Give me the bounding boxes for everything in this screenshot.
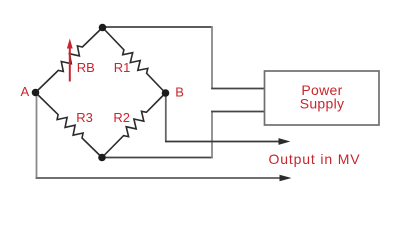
- top node: [99, 24, 107, 32]
- wire: vertical corner up to supply level: [211, 111, 213, 159]
- wire output: node B down: [165, 93, 167, 142]
- svg-text:R1: R1: [114, 60, 131, 75]
- output arrowhead: [279, 138, 291, 145]
- wire A rail: node A down: [36, 93, 38, 179]
- resistor R3: [36, 93, 103, 158]
- bottom arrowhead: [280, 175, 292, 182]
- variable arrow through RB: [67, 39, 73, 82]
- wire output: right to arrow: [165, 141, 280, 143]
- wire A rail: right to bottom arrow: [36, 177, 281, 179]
- wire: into power supply (upper): [211, 88, 264, 90]
- resistor R2: [102, 93, 166, 158]
- svg-text:B: B: [175, 85, 184, 100]
- resistor R1: [103, 28, 166, 94]
- wire top: top node to corner: [103, 26, 213, 28]
- bottom node: [98, 154, 106, 162]
- svg-text:RB: RB: [77, 60, 95, 75]
- wire: vertical corner down to supply level: [211, 26, 213, 88]
- wire: into power supply (lower): [211, 111, 264, 113]
- svg-text:A: A: [21, 84, 30, 99]
- node B: [162, 89, 170, 97]
- power supply box: [265, 71, 380, 125]
- wire bottom: bottom node to corner: [102, 157, 213, 159]
- svg-text:R3: R3: [76, 110, 93, 125]
- resistor RB: [36, 28, 103, 93]
- svg-text:R2: R2: [113, 110, 130, 125]
- svg-text:Output in MV: Output in MV: [269, 151, 361, 167]
- svg-text:Supply: Supply: [300, 95, 345, 111]
- node A: [32, 89, 40, 97]
